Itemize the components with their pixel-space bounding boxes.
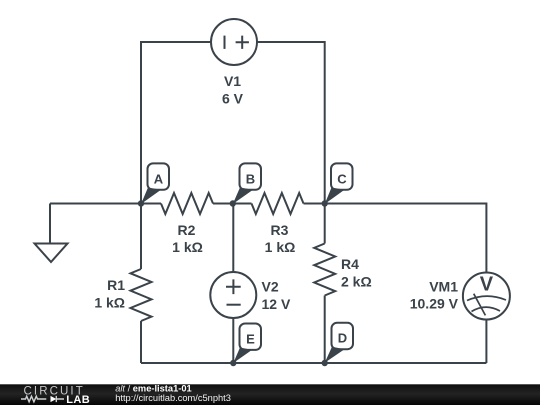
svg-text:V2: V2 bbox=[262, 279, 279, 295]
V2 minus sign bbox=[227, 304, 241, 306]
V2 plus sign bbox=[226, 279, 241, 294]
node E junction dot bbox=[230, 360, 236, 366]
node flag E pointer bbox=[233, 348, 252, 364]
ground wire to node A bbox=[50, 203, 141, 205]
svg-text:1 kΩ: 1 kΩ bbox=[94, 294, 125, 310]
svg-text:R1: R1 bbox=[107, 277, 125, 293]
svg-text:VM1: VM1 bbox=[429, 279, 458, 295]
voltage source V1 circle bbox=[211, 19, 257, 65]
svg-text:V1: V1 bbox=[224, 73, 241, 89]
resistor R1 zigzag bbox=[131, 269, 152, 321]
VM1 meter lower arc bbox=[472, 307, 501, 311]
wire V1 positive terminal to node C bbox=[257, 42, 325, 204]
resistor R3 left stub bbox=[233, 203, 252, 205]
svg-text:6 V: 6 V bbox=[222, 90, 244, 106]
node flag B pointer bbox=[233, 188, 253, 205]
voltmeter VM1 bottom stub bbox=[485, 319, 487, 363]
V1 plus sign bbox=[236, 36, 249, 49]
VM1 meter upper arc bbox=[467, 296, 506, 300]
bottom wire node E node D bbox=[141, 362, 486, 364]
resistor R4 bottom stub bbox=[324, 296, 326, 364]
resistor R3 zigzag bbox=[252, 193, 304, 214]
resistor R3 right stub bbox=[304, 203, 325, 205]
node flag C box bbox=[331, 163, 353, 189]
resistor R2 zigzag bbox=[161, 193, 213, 214]
resistor R2 right stub bbox=[213, 203, 233, 205]
footer bar bbox=[0, 384, 540, 405]
voltage source V2 bottom stub bbox=[232, 318, 234, 363]
voltage source V2 top stub bbox=[232, 204, 234, 273]
resistor R4 zigzag bbox=[314, 244, 335, 296]
node flag D box bbox=[332, 323, 354, 349]
svg-text:C: C bbox=[337, 171, 347, 186]
voltage source V2 circle bbox=[210, 272, 256, 318]
svg-text:1 kΩ: 1 kΩ bbox=[172, 239, 203, 255]
node flag C pointer bbox=[325, 188, 345, 205]
CircuitLab logo diode triangle bbox=[51, 396, 57, 402]
ground stem bbox=[49, 204, 51, 244]
svg-text:V: V bbox=[480, 274, 494, 296]
CircuitLab logo resistor squiggle bbox=[21, 396, 46, 402]
svg-text:A: A bbox=[154, 171, 164, 186]
node B junction dot bbox=[230, 200, 236, 206]
V1 negative bar bbox=[224, 36, 226, 49]
resistor R1 top stub bbox=[140, 204, 142, 270]
node A junction dot bbox=[138, 200, 144, 206]
svg-text:1 kΩ: 1 kΩ bbox=[265, 239, 296, 255]
svg-text:12 V: 12 V bbox=[262, 296, 291, 312]
svg-text:B: B bbox=[246, 171, 255, 186]
svg-text:10.29 V: 10.29 V bbox=[410, 295, 459, 311]
VM1 meter needle bbox=[474, 294, 486, 316]
resistor R2 left stub bbox=[141, 203, 161, 205]
node flag E box bbox=[240, 324, 262, 350]
svg-text:2 kΩ: 2 kΩ bbox=[341, 273, 372, 289]
svg-text:R2: R2 bbox=[178, 222, 196, 238]
ground symbol triangle bbox=[35, 244, 68, 263]
svg-text:R4: R4 bbox=[341, 256, 359, 272]
node D junction dot bbox=[322, 360, 328, 366]
node C junction dot bbox=[322, 200, 328, 206]
node flag A pointer bbox=[141, 188, 161, 205]
wire node C to voltmeter VM1 bbox=[325, 204, 487, 274]
svg-text:D: D bbox=[338, 331, 347, 346]
wire node A up to V1 negative terminal bbox=[141, 42, 211, 204]
node flag D pointer bbox=[325, 347, 345, 363]
resistor R1 bottom stub bbox=[140, 321, 142, 363]
svg-text:R3: R3 bbox=[271, 222, 289, 238]
CircuitLab logo diode bar and lead bbox=[56, 396, 64, 402]
svg-text:http://circuitlab.com/c5npht3: http://circuitlab.com/c5npht3 bbox=[115, 393, 231, 403]
resistor R4 top stub bbox=[324, 204, 326, 244]
node flag B box bbox=[240, 163, 262, 189]
voltmeter VM1 circle bbox=[463, 273, 510, 320]
node flag A box bbox=[148, 163, 170, 189]
svg-text:E: E bbox=[246, 331, 255, 346]
svg-text:LAB: LAB bbox=[66, 394, 90, 405]
